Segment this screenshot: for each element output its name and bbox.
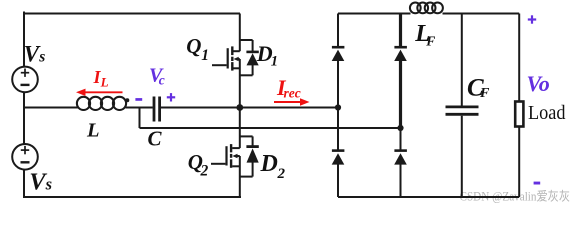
- svg-text:L: L: [86, 120, 100, 142]
- svg-text:V: V: [29, 169, 47, 196]
- svg-text:Q: Q: [186, 34, 201, 58]
- svg-text:F: F: [425, 33, 435, 48]
- svg-text:rec: rec: [284, 85, 301, 100]
- svg-text:Vo: Vo: [527, 71, 550, 96]
- svg-text:Load: Load: [528, 102, 566, 124]
- svg-text:1: 1: [201, 47, 209, 64]
- svg-text:c: c: [159, 73, 165, 88]
- svg-text:s: s: [38, 48, 45, 65]
- svg-text:1: 1: [271, 54, 278, 70]
- svg-text:2: 2: [200, 162, 209, 179]
- svg-text:2: 2: [277, 166, 286, 182]
- svg-text:s: s: [45, 175, 52, 194]
- svg-text:L: L: [100, 74, 109, 89]
- svg-text:D: D: [260, 151, 278, 177]
- svg-text:F: F: [479, 86, 490, 101]
- svg-text:C: C: [148, 127, 163, 151]
